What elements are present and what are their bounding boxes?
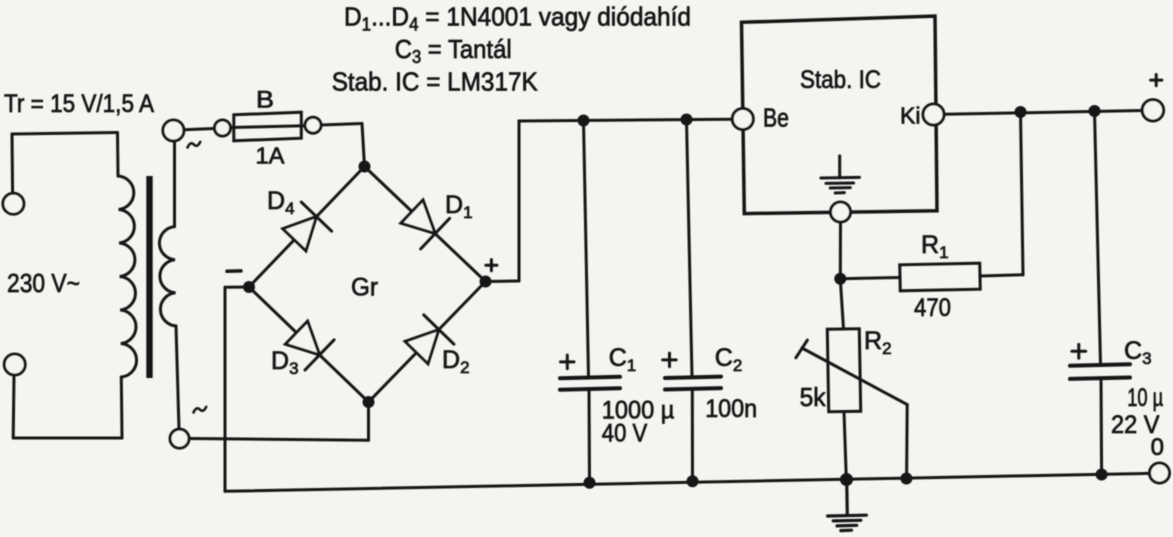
label B [256,87,274,114]
fuse B lead circle right [305,117,321,133]
wire minus node down [224,287,227,491]
svg-text:10 µ: 10 µ [1127,384,1163,412]
label Be [763,103,789,133]
label Stab. IC [800,66,881,94]
wire output rail [944,111,1142,115]
wire R2 wiper arrow [802,348,907,405]
svg-text:40 V: 40 V [602,420,648,448]
label C2 [715,344,743,375]
wire R1 right [980,275,1023,276]
wiper tick [796,340,808,358]
label minus [227,269,241,273]
regulator IC box [742,16,938,214]
wire bottom rail [225,473,1150,491]
label C3 [1124,337,1152,368]
wire C2 top [687,120,693,377]
label 470 [914,294,951,322]
junction R2 bottom [840,473,853,486]
wire C1 bottom [588,390,592,483]
transformer Tr label [4,90,154,118]
label Ki [900,103,920,129]
ground symbol inside IC [821,156,860,193]
label tilde bottom [194,407,207,413]
wire primary bottom-left terminal down [12,375,16,438]
label plus output [1151,75,1162,86]
svg-text:0: 0 [1151,434,1164,461]
wire primary bottom horizontal [13,437,122,440]
wire adj node down to R2 [840,279,843,329]
transformer core [146,176,152,378]
wire bridge minus stub left [225,286,249,289]
terminal IC adj [831,202,851,222]
svg-text:Tr = 15 V/1,5 A: Tr = 15 V/1,5 A [4,90,154,118]
wire C3 top [1095,111,1101,364]
label C2 value [705,395,757,423]
wire fuse to bridge top corner [321,124,362,126]
junction bridge top [359,161,371,173]
resistor R1 [900,263,981,291]
wire input rail to Be [519,119,732,121]
transformer primary winding [118,176,137,377]
label D1 [445,191,473,222]
svg-text:Ki: Ki [900,103,920,129]
label R2 [864,327,892,358]
junction bridge left [243,281,255,293]
diode D4 [283,202,332,251]
svg-text:100n: 100n [705,395,757,423]
bridge edge bottom-right [369,282,486,403]
svg-text:D1...D4 = 1N4001 vagy diódahíd: D1...D4 = 1N4001 vagy diódahíd [344,2,691,35]
capacitor C3 [1070,364,1130,379]
terminal output 0 [1150,463,1170,483]
ground symbol bottom [828,480,867,531]
potentiometer R2 [827,329,860,412]
terminal primary top-left [3,193,24,214]
wire down to bridge top node [362,124,365,167]
junction C1 bottom [584,477,596,489]
wire R2 bottom [844,412,846,479]
terminal secondary bottom ~ [170,429,189,448]
junction C3 bottom [1096,469,1108,481]
wire secondary terminal to coil [173,141,176,227]
wire C1 top [584,121,589,377]
capacitor C1 [560,377,620,390]
wire primary top-left down to terminal [11,134,15,193]
label R1 [921,231,949,262]
wire primary top horizontal [12,133,118,135]
junction adj node [834,273,846,285]
svg-text:1A: 1A [256,143,286,169]
diode D3 [285,321,334,370]
label D4 [267,187,295,218]
label 0 [1151,434,1164,461]
junction R1 output rail [1015,106,1027,118]
wire secondary coil bottom to terminal [176,326,179,429]
label C1 [609,344,637,375]
junction C2 bottom [687,475,699,487]
label D2 [442,346,470,377]
note line 2 [395,34,512,67]
svg-text:B: B [256,87,274,114]
label D3 [271,347,299,378]
label Gr [351,274,378,302]
label plus C1 [561,355,575,369]
wire wiper down [905,405,909,479]
fuse element line [231,126,306,128]
wire adj node to R1 [840,278,900,279]
wire primary coil bottom down [120,377,124,438]
terminal primary bottom-left [4,354,25,375]
label 5k [800,382,827,412]
terminal Ki [923,104,944,125]
wire C2 bottom [691,390,694,481]
junction C2 top [681,114,693,126]
wire secondary bottom to bridge [189,439,369,441]
wire R1 up to output rail [1021,112,1024,275]
wire primary into coil [116,133,120,177]
wire C3 bottom [1100,379,1104,474]
wire adj down [839,222,842,279]
bridge edge top-left [249,167,365,288]
diode D2 [405,315,454,364]
svg-text:230 V~: 230 V~ [7,268,80,298]
note line 3 [332,66,539,96]
terminal Be [732,109,753,130]
wire bridge plus right [486,280,520,284]
svg-text:Stab. IC: Stab. IC [800,66,881,94]
bridge edge bottom-left [249,287,369,402]
svg-text:470: 470 [914,294,951,322]
label C3 value [1127,384,1163,412]
junction C3 output rail [1089,105,1101,117]
fuse B body [234,112,301,141]
svg-text:5k: 5k [800,382,827,412]
label 1A [256,143,286,169]
fuse B lead circle left [215,120,231,136]
svg-text:Be: Be [763,103,789,133]
label C1 value [602,397,675,425]
note line 1 [344,2,691,35]
terminal secondary top ~ [163,120,184,141]
node 230V label [7,268,80,298]
capacitor C2 [665,377,721,390]
transformer secondary winding [159,227,176,326]
terminal output plus [1142,100,1163,121]
label plus C2 [663,353,677,367]
label tilde top [188,142,201,148]
label plus C3 [1072,344,1086,358]
svg-text:Gr: Gr [351,274,378,302]
junction wiper bottom [900,473,912,485]
junction C1 top [578,115,590,127]
svg-text:Stab. IC = LM317K: Stab. IC = LM317K [332,66,539,96]
label C1 voltage [602,420,648,448]
junction bridge bottom [363,396,375,408]
label plus bridge [486,260,497,271]
diode D1 [401,200,450,249]
bridge edge top-right [365,167,486,282]
wire secondary top to fuse [184,129,215,130]
label C3 voltage [1111,411,1160,439]
wire up to input rail [518,121,521,281]
wire bridge bottom node down [367,402,370,440]
junction bridge right [480,276,492,288]
